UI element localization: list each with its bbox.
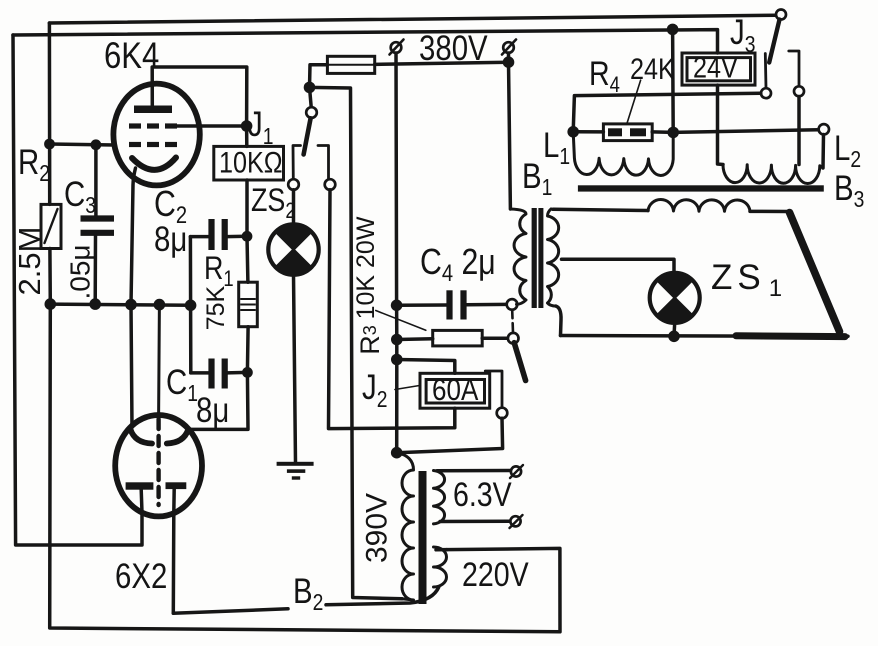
switch J2 throw bracket bbox=[485, 371, 502, 408]
lamp ZS1 bbox=[650, 273, 700, 323]
svg-text:C4 2μ: C4 2μ bbox=[420, 243, 496, 287]
winding L2 (on B3 core) bbox=[723, 165, 823, 184]
node dot bus at x=50 bbox=[45, 298, 57, 310]
wire B1 secondary bottom tap down bbox=[556, 306, 561, 335]
wire lamp ZS2 to ground bbox=[294, 275, 296, 463]
switch S1 blade bbox=[304, 118, 311, 154]
wire contact to lamp ZS2 bbox=[292, 190, 296, 225]
wire 6X2 right bar to B2 220V winding bottom (left part) bbox=[173, 609, 288, 613]
svg-text:220V: 220V bbox=[462, 556, 529, 594]
wire main HT bus x=396 from left 380V terminal down to B2 primary bbox=[394, 53, 398, 453]
terminal 6.3V bottom (slash) bbox=[510, 515, 523, 528]
node J1 dot bbox=[241, 120, 253, 132]
work line thick segment bbox=[736, 332, 845, 340]
node dot bus at C1/C2 branch bbox=[185, 300, 197, 312]
resistor R3 10K 20W bbox=[397, 330, 508, 346]
6K4 cathode lead down to bus bbox=[131, 168, 136, 305]
wire 390V long line down to B2 primary bottom bbox=[310, 87, 403, 598]
switch J3 right throw bracket bbox=[789, 51, 799, 86]
node dot bus at 60A coil bbox=[391, 354, 403, 366]
node dot C2/R1 junction bbox=[242, 231, 253, 242]
fuse F1 bbox=[310, 56, 509, 87]
lamp ZS2 bbox=[268, 224, 318, 274]
svg-text:390V: 390V bbox=[361, 493, 394, 563]
open circle B1 primary bottom / C4 node bbox=[507, 299, 518, 310]
resistor R4 24K bbox=[573, 124, 673, 141]
transformer B1 secondary winding bbox=[548, 209, 559, 306]
wire 6.3V bottom lead bbox=[440, 520, 510, 524]
svg-text:6X2: 6X2 bbox=[115, 557, 167, 596]
svg-text:24V: 24V bbox=[693, 50, 738, 84]
wire lamp ZS1 bottom to work line bbox=[672, 323, 676, 337]
wire B1 secondary top tap to B3 heavy winding bbox=[553, 209, 648, 210]
switch S1 common contact circle bbox=[306, 107, 317, 118]
switch S1 left throw bracket bbox=[293, 146, 301, 180]
node dot at R2 top wire bbox=[44, 139, 55, 150]
6K4 grid dashes row2 bbox=[129, 142, 177, 147]
wire grid row1 of 6K4 to J1 node bbox=[177, 124, 247, 128]
switch J2 blade bbox=[514, 343, 525, 381]
transformer B1 primary winding bbox=[510, 209, 526, 304]
node dot at C3 top lead bbox=[91, 139, 102, 150]
svg-text:2.5M: 2.5M bbox=[12, 227, 47, 296]
6K4 grid dashes row1 bbox=[129, 123, 177, 128]
wire right throw contact down and to 60A coil bottom bbox=[329, 190, 455, 429]
wire switch ZS2 common lead bbox=[310, 87, 312, 107]
wire 24V coil bottom to L2 winding left end bbox=[718, 85, 724, 164]
callout line J2 bbox=[395, 386, 420, 390]
capacitor C3 (.05u) bbox=[81, 145, 115, 304]
terminal 380V left (with slash) bbox=[390, 40, 404, 55]
switch S1 right throw bracket bbox=[318, 146, 329, 180]
wire top line 2 (outer top rail to 24V relay) bbox=[13, 30, 718, 53]
open circle R3 right / switch J2 blade pivot bbox=[508, 333, 519, 344]
winding B3 heavy loop bbox=[648, 199, 750, 211]
node dot fuse wire at right 380V terminal bbox=[503, 56, 515, 68]
switch J3 right throw contact circle bbox=[794, 86, 804, 96]
transformer B2 220V winding bbox=[434, 547, 447, 587]
6X2 right cathode bar bbox=[166, 482, 187, 489]
switch J3 left throw contact circle bbox=[761, 88, 771, 98]
transformer B2 core bbox=[419, 471, 427, 604]
wire L2 terminal down to winding right end bbox=[821, 135, 825, 169]
callout line 24K bbox=[627, 80, 641, 124]
resistor R1 75K bbox=[239, 236, 258, 372]
node dot bus at C4 bbox=[391, 300, 403, 312]
switch S1 right throw contact circle bbox=[325, 179, 336, 190]
node dot C1/R1 junction bbox=[242, 367, 253, 378]
capacitor C4 (2u) bbox=[397, 290, 507, 319]
transformer B1 core bbox=[532, 208, 544, 308]
node dot fuse left / 390V line bbox=[304, 82, 316, 94]
electrode blade (welding arm) bbox=[790, 213, 840, 332]
6K4 cathode arc bbox=[132, 158, 176, 170]
terminal 380V right (with slash) bbox=[502, 40, 516, 55]
node dot on line2 feeding J3 bbox=[667, 24, 679, 36]
node dot R4 left bbox=[567, 126, 579, 138]
tube 6X2 envelope U2 bbox=[115, 415, 202, 516]
switch J2 throw contact circle bbox=[497, 408, 508, 419]
wire left rail x=50 (line1 corner through R2 to bottom border, 220V loop) bbox=[48, 23, 52, 204]
node dot bus at 6K4 cathode bbox=[125, 299, 137, 311]
callout line R3 bbox=[376, 311, 426, 331]
wire grid row2 of 6K4 to R2/C3 rail bbox=[50, 144, 115, 145]
tube 6K4 envelope U1 bbox=[113, 84, 199, 186]
6X2 left plate arc bbox=[131, 430, 153, 444]
6X2 heater dashed line bbox=[157, 305, 161, 416]
capacitor C2 (8u) bbox=[190, 219, 247, 250]
wire B3 heavy winding to electrode bbox=[750, 210, 789, 214]
svg-text:8μ: 8μ bbox=[196, 391, 229, 430]
wire R4 bypass to J3 left contact bbox=[573, 93, 761, 132]
svg-text:6K4: 6K4 bbox=[104, 36, 159, 77]
wire J3 right contact down to L2 winding tap bbox=[797, 97, 801, 165]
terminal 6.3V top (slash) bbox=[510, 465, 523, 478]
switch J3 left throw stub bbox=[764, 54, 768, 88]
dashed link between the two circles bbox=[511, 310, 514, 332]
svg-text:75K: 75K bbox=[202, 285, 230, 330]
wire 6.3V top lead bbox=[437, 469, 511, 473]
ground symbol bbox=[277, 462, 314, 480]
node dot bus at C3 bbox=[89, 298, 101, 310]
transformer B2 primary 390V winding bbox=[397, 453, 414, 600]
wire R4 right node to L2 terminal bbox=[673, 130, 818, 133]
6X2 right plate arc bbox=[167, 430, 189, 444]
wire C2/C1 left leg on bus bbox=[189, 237, 193, 373]
wire B2 220V bottom (right part behind B2 label) bbox=[326, 587, 439, 605]
svg-text:.05μ: .05μ bbox=[65, 244, 96, 299]
node dot ZS1 on work line bbox=[668, 331, 680, 343]
wire 6K4 cathode rail down to 6X2 left plate bbox=[131, 305, 132, 428]
capacitor C1 (8u) bbox=[191, 359, 248, 389]
wire right 380V terminal to B1 primary top bbox=[509, 53, 511, 209]
6K4 plate bar bbox=[134, 106, 172, 114]
node dot B2 primary top bbox=[391, 447, 403, 459]
wire bus to 60A coil top bbox=[397, 360, 455, 374]
transformer B2 6.3V winding bbox=[434, 471, 445, 524]
node dot bus at 6X2 heater bbox=[154, 299, 166, 311]
6X2 right bar lead down bbox=[172, 489, 176, 614]
core B3 bar bbox=[578, 185, 824, 191]
svg-text:24K: 24K bbox=[630, 52, 675, 86]
wire bottom bus y=304 bbox=[50, 304, 190, 305]
terminal L2 circle bbox=[819, 124, 829, 134]
switch S1 left throw contact circle bbox=[288, 179, 299, 190]
switch J3 blade bbox=[769, 20, 779, 63]
relay coil J3 24V box bbox=[682, 50, 755, 85]
node dot bus at R3 bbox=[391, 334, 403, 346]
wire 220V top lead bbox=[436, 548, 447, 552]
6X2 left cathode bar bbox=[126, 482, 154, 489]
svg-text:8μ: 8μ bbox=[154, 220, 187, 259]
svg-text:60A: 60A bbox=[432, 373, 479, 408]
svg-text:10KΩ: 10KΩ bbox=[219, 145, 283, 179]
wire J2 contact to B2 primary top node bbox=[397, 418, 503, 452]
resistor R2 (2.5M adjustable) bbox=[41, 204, 61, 248]
wire R1 bottom to 6X2 right plate bbox=[188, 372, 248, 429]
wire work return line (bottom) bbox=[561, 334, 849, 338]
svg-text:6.3V: 6.3V bbox=[453, 476, 512, 514]
wire left border down to 6X2 left plate bbox=[13, 35, 142, 545]
svg-text:10K 20W: 10K 20W bbox=[352, 216, 380, 319]
wire top line 1 (220V feed to J3 switch) bbox=[49, 15, 776, 23]
node dot R4 right bbox=[667, 127, 679, 139]
switch J3 top contact circle on line1 bbox=[776, 10, 786, 20]
wire line2 node down to R4 right node bbox=[671, 29, 675, 132]
winding L1 (on B3 core) bbox=[573, 132, 673, 176]
svg-text:380V: 380V bbox=[419, 29, 488, 68]
6X2 left bar lead bbox=[139, 490, 143, 513]
relay coil J2 60A box bbox=[420, 373, 490, 408]
relay coil J1 10Kohm box bbox=[214, 126, 284, 236]
wire B1 secondary mid tap to lamp ZS1 bbox=[562, 259, 675, 273]
6K4 plate lead to top wire and down to J1 node bbox=[152, 67, 247, 126]
